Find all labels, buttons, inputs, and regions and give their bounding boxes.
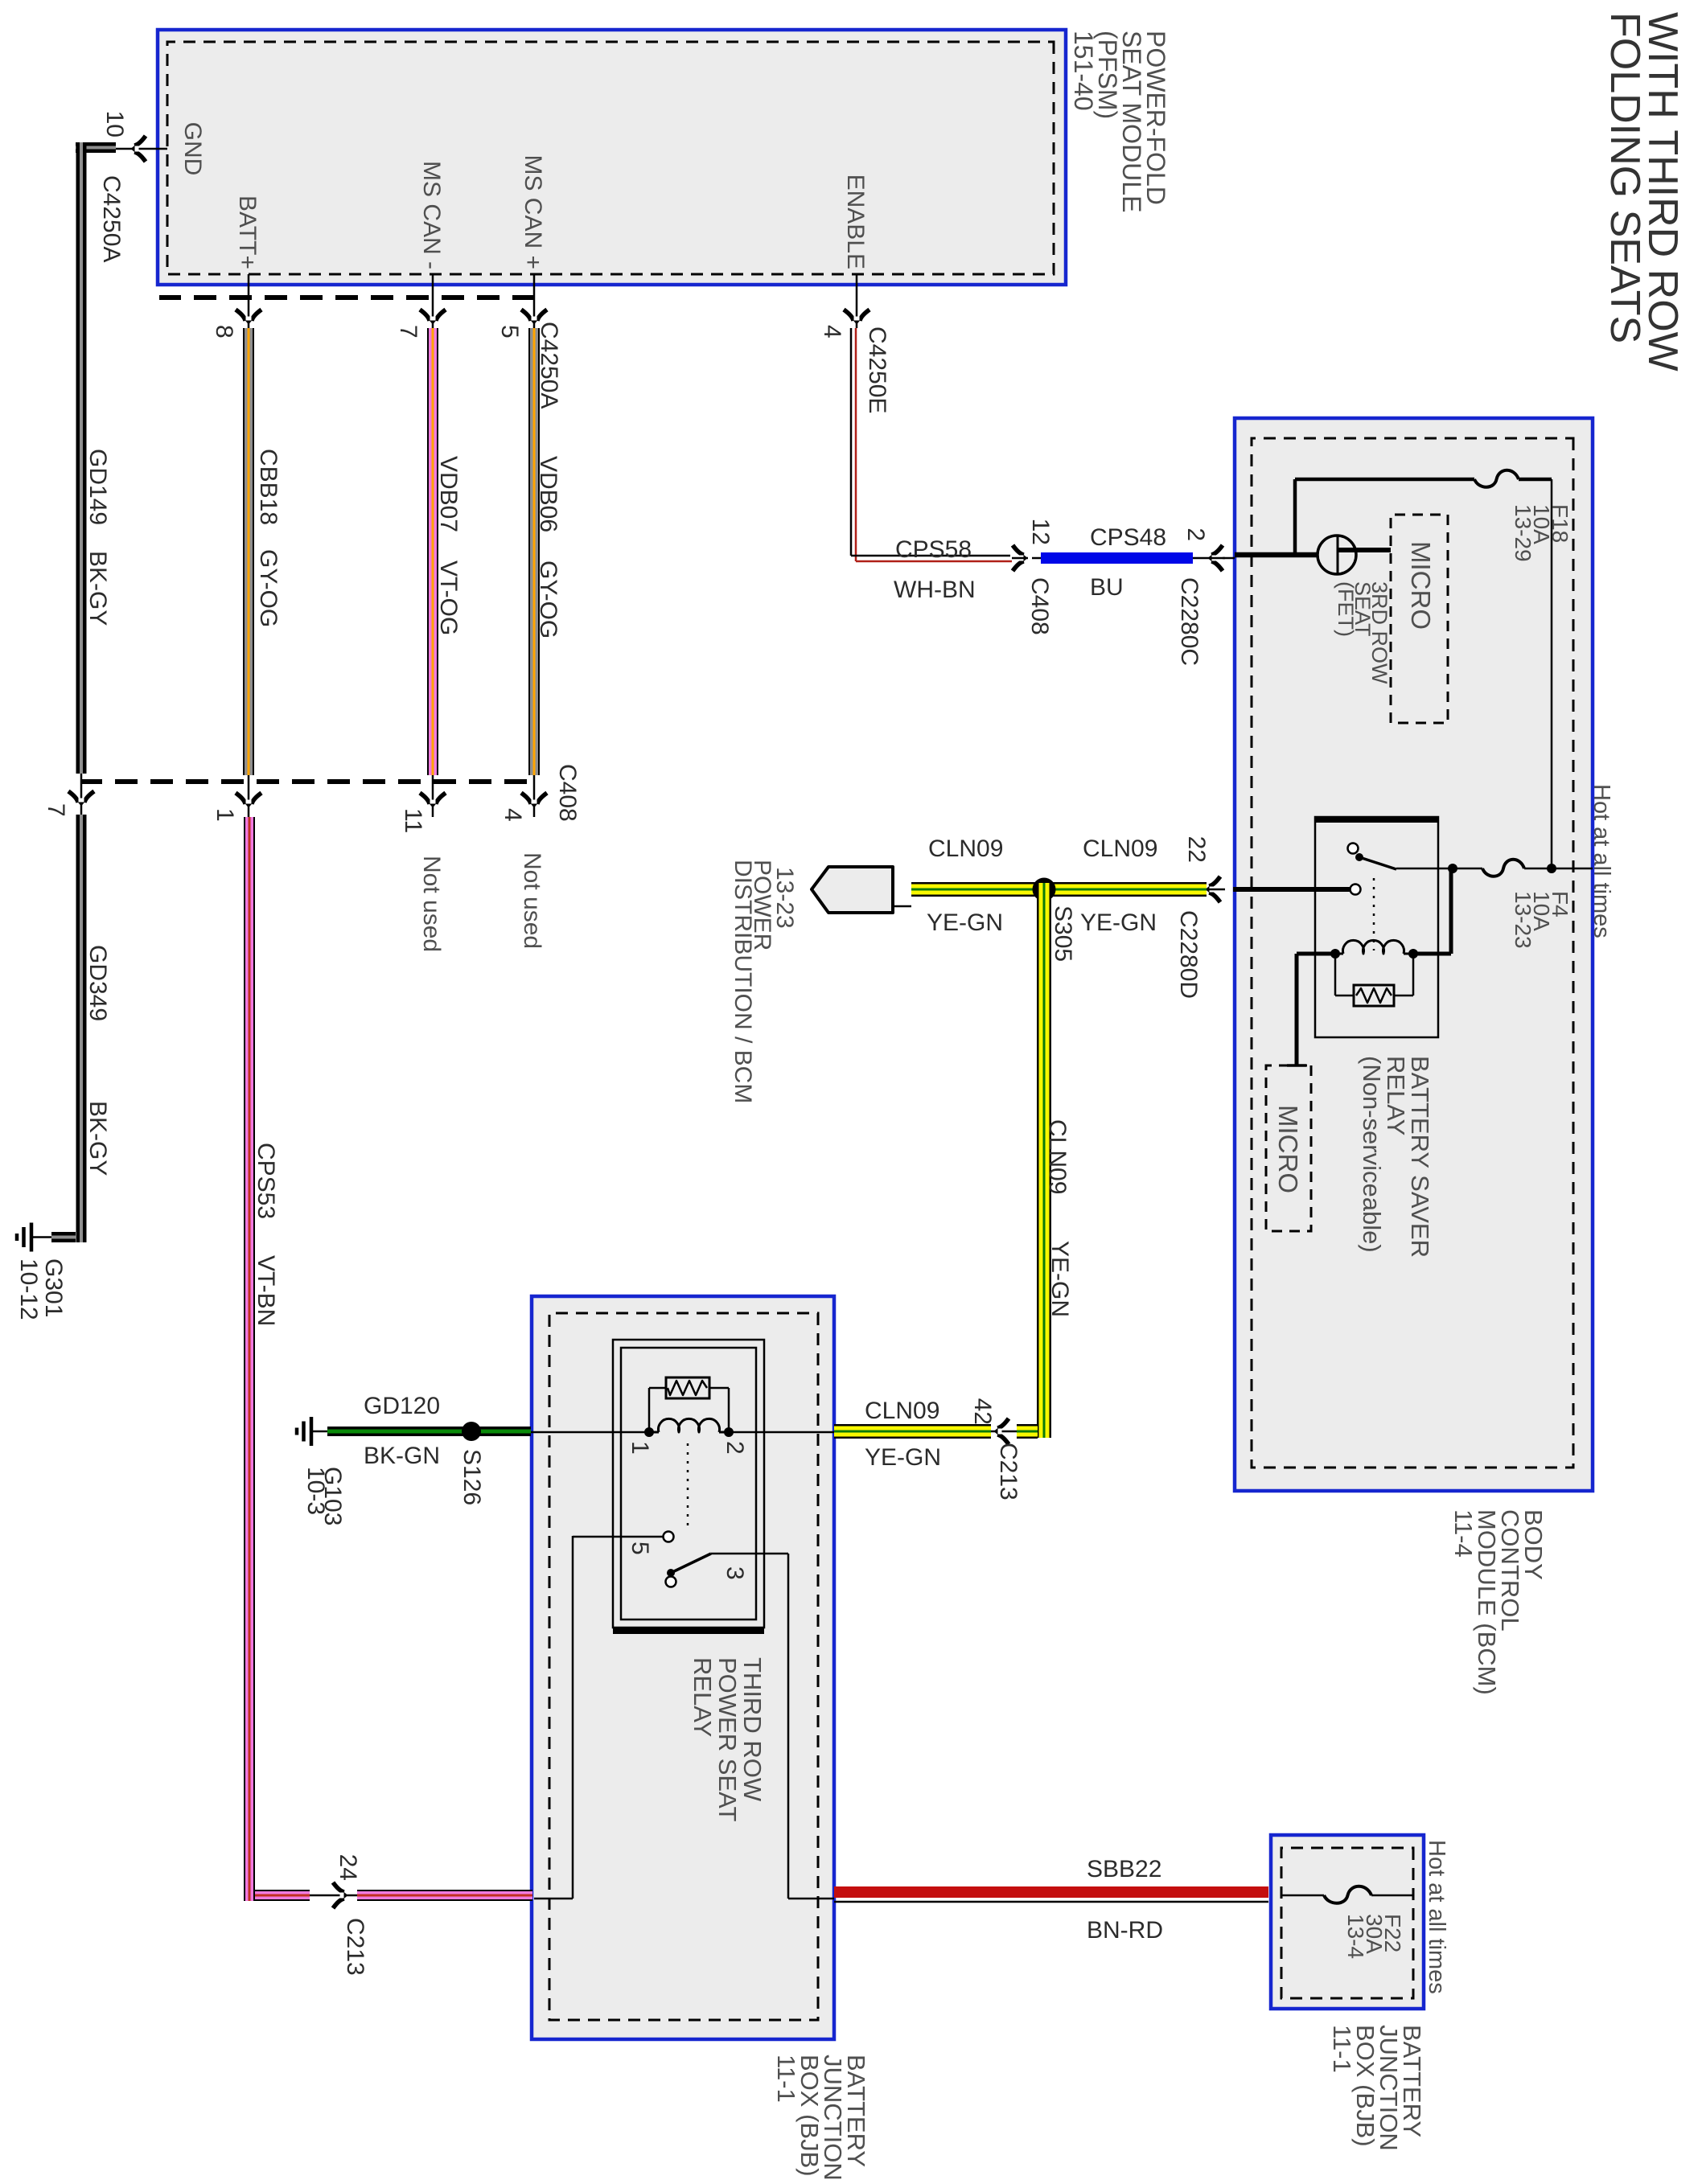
svg-text:BK-GY: BK-GY — [84, 551, 111, 626]
svg-text:151-40: 151-40 — [1069, 31, 1098, 111]
svg-text:BU: BU — [1090, 574, 1124, 601]
svg-text:1: 1 — [627, 1441, 653, 1455]
svg-text:BATT+: BATT+ — [234, 195, 261, 269]
svg-text:Hot at all times: Hot at all times — [1589, 784, 1614, 938]
svg-text:GY-OG: GY-OG — [255, 549, 282, 627]
svg-text:GY-OG: GY-OG — [535, 560, 561, 638]
svg-text:2: 2 — [1182, 528, 1209, 541]
svg-text:YE-GN: YE-GN — [927, 909, 1003, 936]
svg-text:GD349: GD349 — [84, 945, 111, 1021]
svg-text:G301: G301 — [40, 1258, 67, 1317]
svg-text:S305: S305 — [1050, 905, 1076, 962]
svg-text:VT-BN: VT-BN — [253, 1255, 279, 1326]
svg-text:10-3: 10-3 — [302, 1467, 329, 1515]
svg-text:5: 5 — [496, 325, 523, 339]
svg-text:YE-GN: YE-GN — [1046, 1241, 1073, 1317]
svg-text:13-29: 13-29 — [1511, 504, 1535, 562]
svg-text:CLN09: CLN09 — [1083, 835, 1157, 862]
svg-text:C2280D: C2280D — [1175, 910, 1202, 999]
svg-text:BK-GN: BK-GN — [364, 1443, 440, 1469]
svg-text:24: 24 — [335, 1854, 361, 1881]
svg-text:YE-GN: YE-GN — [1080, 909, 1157, 936]
svg-text:C213: C213 — [995, 1443, 1022, 1500]
svg-text:GD149: GD149 — [84, 449, 111, 525]
svg-text:22: 22 — [1183, 836, 1210, 863]
svg-text:BK-GY: BK-GY — [84, 1101, 111, 1176]
svg-text:Hot at all times: Hot at all times — [1424, 1840, 1449, 1994]
svg-text:MS CAN +: MS CAN + — [520, 154, 546, 269]
svg-text:42: 42 — [969, 1398, 996, 1425]
svg-text:11-4: 11-4 — [1449, 1509, 1478, 1558]
svg-text:C213: C213 — [342, 1918, 368, 1976]
svg-text:C408: C408 — [554, 764, 581, 822]
svg-text:CPS58: CPS58 — [895, 536, 972, 563]
svg-text:THIRD ROW: THIRD ROW — [738, 1657, 767, 1802]
svg-text:11-1: 11-1 — [1328, 2025, 1356, 2073]
svg-text:12: 12 — [1027, 519, 1054, 545]
svg-text:GND: GND — [179, 122, 206, 176]
svg-text:2: 2 — [721, 1441, 748, 1455]
svg-text:13-23: 13-23 — [1511, 891, 1535, 949]
svg-text:VDB07: VDB07 — [435, 456, 462, 532]
svg-text:CPS53: CPS53 — [253, 1143, 279, 1219]
svg-text:(Non-serviceable): (Non-serviceable) — [1358, 1056, 1386, 1253]
svg-text:8: 8 — [211, 325, 237, 339]
svg-text:BATTERY SAVER: BATTERY SAVER — [1406, 1056, 1434, 1258]
svg-text:MS CAN -: MS CAN - — [418, 161, 445, 269]
svg-text:MICRO: MICRO — [1406, 541, 1436, 630]
svg-text:VDB06: VDB06 — [535, 456, 561, 532]
svg-text:RELAY: RELAY — [689, 1657, 717, 1737]
svg-text:MICRO: MICRO — [1273, 1105, 1303, 1193]
svg-text:CLN09: CLN09 — [865, 1398, 939, 1424]
svg-text:Not used: Not used — [418, 856, 445, 952]
svg-text:RELAY: RELAY — [1382, 1056, 1410, 1135]
svg-text:4: 4 — [819, 325, 845, 339]
svg-text:Not used: Not used — [519, 852, 545, 949]
svg-text:CBB18: CBB18 — [255, 449, 282, 525]
svg-text:BN-RD: BN-RD — [1087, 1917, 1163, 1944]
svg-text:POWER SEAT: POWER SEAT — [713, 1657, 742, 1821]
svg-text:11: 11 — [400, 808, 426, 833]
svg-text:SBB22: SBB22 — [1087, 1856, 1161, 1882]
svg-text:13-4: 13-4 — [1343, 1914, 1368, 1959]
svg-text:10-12: 10-12 — [15, 1258, 42, 1320]
svg-text:DISTRIBUTION / BCM: DISTRIBUTION / BCM — [730, 860, 756, 1103]
svg-text:7: 7 — [43, 803, 69, 817]
svg-text:7: 7 — [395, 325, 421, 339]
svg-text:C4250A: C4250A — [536, 322, 562, 408]
svg-text:CPS48: CPS48 — [1090, 524, 1166, 551]
svg-text:4: 4 — [499, 808, 526, 822]
svg-text:YE-GN: YE-GN — [865, 1444, 941, 1471]
svg-text:C4250A: C4250A — [98, 175, 125, 262]
svg-text:C2280C: C2280C — [1176, 577, 1202, 666]
svg-text:C408: C408 — [1026, 577, 1053, 635]
svg-text:ENABLE: ENABLE — [842, 174, 869, 269]
svg-text:5: 5 — [627, 1542, 653, 1555]
svg-text:FOLDING SEATS: FOLDING SEATS — [1601, 12, 1648, 343]
svg-text:S126: S126 — [458, 1449, 485, 1505]
svg-text:WH-BN: WH-BN — [894, 577, 976, 603]
svg-text:1: 1 — [212, 808, 238, 822]
svg-text:CLN09: CLN09 — [1044, 1119, 1071, 1194]
svg-text:10: 10 — [101, 111, 128, 138]
svg-text:(FET): (FET) — [1334, 581, 1358, 637]
svg-text:GD120: GD120 — [364, 1393, 440, 1419]
svg-text:CLN09: CLN09 — [928, 835, 1003, 862]
svg-text:C4250E: C4250E — [864, 326, 890, 413]
svg-text:VT-OG: VT-OG — [435, 560, 462, 635]
svg-text:3: 3 — [721, 1566, 748, 1580]
svg-text:11-1: 11-1 — [772, 2055, 800, 2103]
